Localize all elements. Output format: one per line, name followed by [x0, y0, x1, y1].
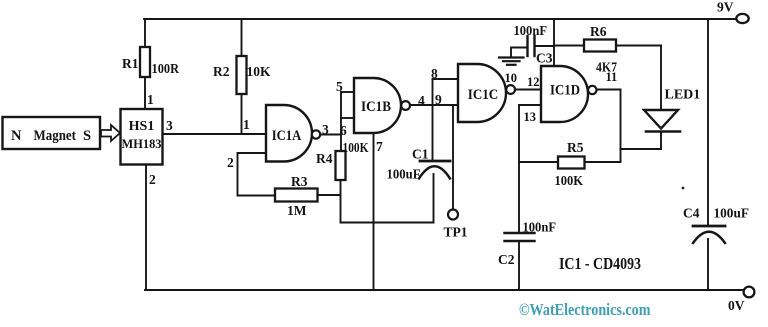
svg-text:IC1B: IC1B: [361, 99, 391, 115]
svg-text:TP1: TP1: [444, 225, 468, 240]
svg-text:R6: R6: [590, 24, 607, 39]
op IC1B nand gate: [354, 78, 401, 133]
magnet box: [3, 117, 101, 149]
wire IC1D output pin11: [597, 89, 621, 91]
svg-text:6: 6: [340, 123, 347, 138]
wire top 9V rail: [144, 18, 737, 20]
wire IC1B input tie vertical: [340, 92, 342, 151]
resistor R1: [140, 47, 150, 77]
wire output drop to R5: [620, 90, 622, 163]
svg-text:5: 5: [336, 79, 343, 94]
wire R1 bottom lead to HS1 pin1: [144, 77, 146, 109]
bubble IC1D output: [588, 86, 596, 94]
svg-text:C4: C4: [683, 206, 700, 221]
arrow magnet to HS1: [101, 125, 120, 141]
capacitor C2 plate top: [505, 232, 535, 234]
wire R1 top lead: [144, 19, 146, 47]
svg-text:R3: R3: [291, 174, 308, 189]
wire IC1B pin7 drop: [373, 133, 375, 290]
label N Magnet S: [11, 128, 91, 144]
svg-text:N: N: [11, 128, 22, 144]
wire C3 left lead: [511, 48, 527, 57]
wire ground row horizontal: [341, 222, 434, 224]
resistor R4: [336, 151, 346, 180]
capacitor C4 plate top: [693, 225, 725, 228]
svg-text:S: S: [83, 128, 91, 144]
wire R6 left lead: [554, 45, 584, 47]
terminal 0V: [744, 287, 755, 298]
svg-text:12: 12: [527, 75, 540, 89]
svg-text:8: 8: [431, 66, 438, 81]
svg-text:0V: 0V: [728, 298, 745, 313]
wire IC1C pin8 tie vertical: [432, 79, 434, 161]
wire C4 bottom lead: [707, 239, 709, 290]
wire IC1B pin5 stub: [341, 91, 354, 93]
wire IC1A pin2 bend to R3: [238, 153, 276, 196]
dot artifact: [682, 187, 685, 190]
svg-text:100uF: 100uF: [714, 206, 750, 221]
wire R6 right lead: [616, 45, 661, 47]
svg-text:100R: 100R: [152, 61, 180, 76]
capacitor C1 plate top: [420, 160, 450, 163]
wire R5 right lead: [585, 161, 621, 163]
svg-text:IC1 - CD4093: IC1 - CD4093: [559, 254, 641, 273]
svg-text:R5: R5: [567, 140, 584, 155]
wire R3 right lead: [318, 194, 341, 196]
svg-text:1: 1: [147, 92, 154, 107]
svg-text:100uF: 100uF: [387, 167, 421, 182]
svg-text:Magnet: Magnet: [34, 128, 77, 144]
wire IC1B pin6 stub: [341, 117, 354, 119]
svg-text:100K: 100K: [343, 140, 369, 155]
svg-text:9V: 9V: [717, 0, 734, 15]
svg-text:7: 7: [376, 139, 383, 154]
resistor R2: [237, 56, 247, 94]
svg-text:HS1: HS1: [129, 119, 155, 134]
svg-text:2: 2: [227, 155, 234, 170]
wire C1 bottom stub: [433, 174, 435, 223]
wire LED anode drop: [660, 46, 662, 111]
wire IC1D pin13 stub: [519, 104, 541, 106]
capacitor C2 plate bottom: [505, 240, 535, 242]
svg-text:13: 13: [524, 110, 537, 124]
sensor HS1 MH183 box: [121, 109, 163, 165]
resistor R5: [558, 157, 585, 169]
wire IC1C output to IC1D pin12: [515, 89, 541, 91]
wire LED to output node: [621, 148, 662, 150]
svg-text:10: 10: [505, 71, 518, 85]
svg-text:R2: R2: [213, 64, 230, 79]
svg-text:100K: 100K: [555, 173, 584, 188]
capacitor C4 plate curved: [693, 232, 725, 243]
wire R2 bottom lead: [241, 94, 243, 134]
bubble IC1C output: [506, 85, 515, 94]
wire LED cathode down: [660, 133, 662, 150]
wire C3 right lead: [535, 45, 554, 47]
svg-text:LED1: LED1: [665, 88, 701, 103]
svg-text:1: 1: [243, 117, 250, 132]
svg-text:3: 3: [322, 122, 329, 137]
capacitor C3 plate left: [526, 36, 528, 56]
wire IC1C pin8 stub: [433, 78, 459, 80]
svg-text:4: 4: [418, 93, 425, 108]
svg-text:IC1D: IC1D: [550, 83, 580, 99]
bubble IC1B output: [401, 101, 410, 110]
wire IC1A output to node: [320, 134, 341, 136]
wire pin13 to C2 vertical: [518, 105, 520, 233]
op IC1D nand gate: [541, 66, 588, 122]
svg-text:100nF: 100nF: [523, 220, 557, 235]
resistor R3: [275, 189, 318, 202]
capacitor C1 plate curved: [419, 166, 450, 178]
wire R2 top lead: [241, 19, 243, 56]
svg-text:MH183: MH183: [122, 136, 162, 151]
svg-text:100nF: 100nF: [514, 23, 548, 38]
wire 9V drop to IC1D top: [553, 19, 555, 66]
svg-text:C3: C3: [536, 51, 553, 66]
svg-text:C2: C2: [498, 252, 515, 267]
op IC1A nand gate: [266, 105, 312, 162]
svg-text:IC1C: IC1C: [468, 87, 499, 103]
ground symbol C3: [499, 58, 524, 65]
svg-text:IC1A: IC1A: [272, 128, 302, 144]
wire IC1B output to IC1C pin9: [410, 104, 458, 106]
svg-text:R1: R1: [122, 56, 139, 71]
wire HS1 pin2 drop: [145, 165, 147, 291]
bubble IC1A output: [312, 130, 320, 138]
wire bottom 0V rail: [145, 289, 744, 291]
wire R5 left lead: [519, 161, 558, 163]
svg-text:9: 9: [435, 92, 442, 107]
op IC1C nand gate: [458, 64, 506, 122]
wire C4 top drop: [707, 19, 709, 226]
terminal 9V: [736, 14, 748, 23]
svg-text:1M: 1M: [287, 203, 307, 218]
resistor R6: [584, 40, 616, 52]
svg-text:C1: C1: [412, 147, 429, 162]
svg-text:©WatElectronics.com: ©WatElectronics.com: [519, 300, 651, 319]
wire HS1 pin3 to IC1A pin1: [163, 133, 267, 135]
svg-text:3: 3: [166, 118, 173, 133]
led LED1 cathode bar: [646, 130, 680, 133]
svg-text:R4: R4: [316, 151, 333, 166]
svg-text:4K7: 4K7: [596, 60, 617, 75]
wire TP1 drop: [452, 105, 454, 210]
led LED1 triangle: [644, 110, 678, 129]
wire C2 bottom lead: [518, 241, 520, 290]
svg-text:2: 2: [149, 172, 156, 187]
testpoint TP1: [448, 210, 458, 220]
wire R4 bottom lead: [340, 180, 342, 223]
svg-text:10K: 10K: [247, 64, 272, 79]
capacitor C3 plate right: [533, 36, 535, 56]
